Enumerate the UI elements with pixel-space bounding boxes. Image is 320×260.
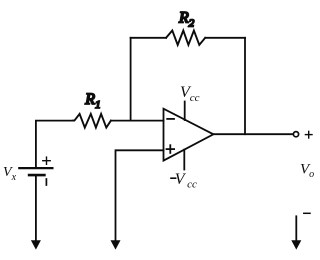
wire -Vcc supply	[183, 150, 185, 170]
wire output ground lead	[295, 216, 297, 241]
wire feedback vertical right	[244, 38, 246, 134]
ground arrow right	[291, 240, 301, 249]
wire Vx to ground	[35, 175, 37, 241]
terminal circle output	[293, 132, 298, 137]
svg-text:Vo: Vo	[300, 162, 314, 181]
ground arrow middle	[111, 240, 121, 249]
resistor R1	[73, 114, 111, 128]
wire input corner (Vx top to R1 left)	[36, 121, 73, 168]
output minus sign	[304, 212, 310, 214]
source Vx plate top	[18, 167, 53, 169]
wire output	[213, 133, 292, 135]
svg-text:R2: R2	[178, 10, 195, 30]
op-amp plus input sign	[167, 145, 175, 153]
source Vx plus sign	[43, 157, 50, 164]
svg-text:Vx: Vx	[3, 165, 17, 183]
op-amp minus input sign	[167, 118, 174, 120]
svg-text:R1: R1	[84, 91, 100, 111]
source Vx minus tick	[45, 179, 47, 185]
svg-text:Vcc: Vcc	[175, 171, 197, 191]
wire feedback top right	[205, 37, 245, 39]
wire R1 to inverting input	[111, 120, 164, 122]
label -Vcc minus	[170, 177, 176, 179]
wire feedback vertical left	[130, 38, 132, 121]
output plus sign	[305, 131, 312, 138]
source Vx plate bottom	[28, 174, 46, 177]
wire feedback top left	[131, 37, 167, 39]
ground arrow left	[31, 240, 41, 249]
op-amp U1 triangle	[164, 109, 214, 161]
wire Vcc supply	[184, 102, 186, 121]
wire noninverting input	[116, 150, 164, 241]
resistor R2	[166, 31, 205, 45]
svg-text:Vcc: Vcc	[180, 84, 200, 104]
